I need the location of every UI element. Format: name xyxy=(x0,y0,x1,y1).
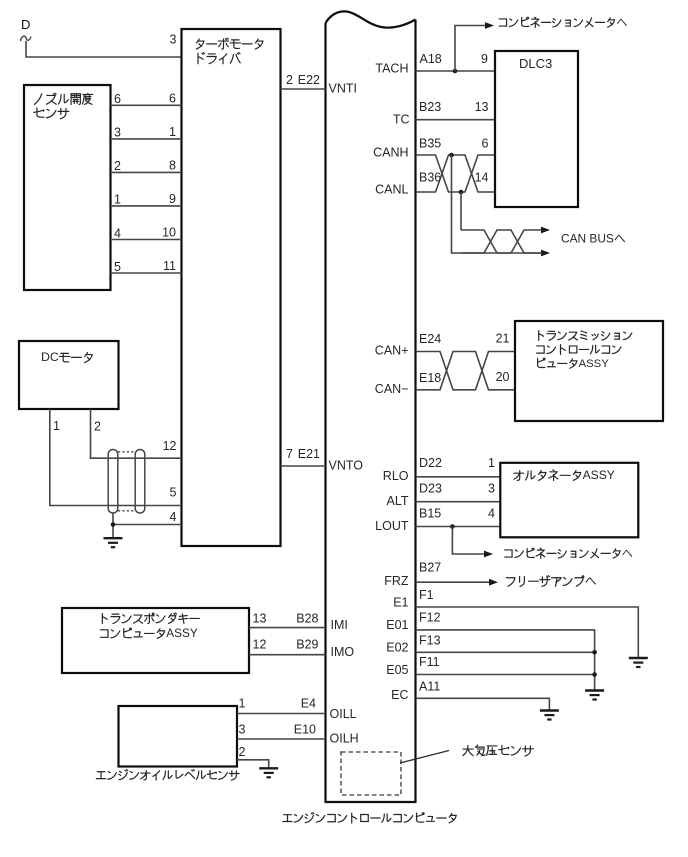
svg-text:VNTI: VNTI xyxy=(329,82,357,96)
svg-text:5: 5 xyxy=(170,485,177,499)
svg-text:21: 21 xyxy=(496,332,510,346)
svg-text:1: 1 xyxy=(169,125,176,139)
svg-text:11: 11 xyxy=(163,259,176,273)
svg-text:E02: E02 xyxy=(386,641,408,655)
svg-text:へ: へ xyxy=(585,574,597,588)
svg-text:ASSY: ASSY xyxy=(579,358,610,370)
svg-text:CANH: CANH xyxy=(373,146,408,160)
svg-text:4: 4 xyxy=(170,510,177,524)
svg-text:CANL: CANL xyxy=(375,183,408,197)
svg-text:E1: E1 xyxy=(393,595,408,609)
svg-text:EC: EC xyxy=(391,688,408,702)
svg-text:2: 2 xyxy=(94,420,101,434)
svg-text:DLC3: DLC3 xyxy=(519,56,552,71)
svg-text:3: 3 xyxy=(488,482,495,496)
svg-text:FRZ: FRZ xyxy=(384,574,409,588)
svg-text:4: 4 xyxy=(114,226,121,240)
svg-text:TACH: TACH xyxy=(375,62,408,76)
svg-text:3: 3 xyxy=(170,33,177,47)
svg-text:D: D xyxy=(21,17,30,32)
svg-text:CAN−: CAN− xyxy=(375,382,409,396)
svg-text:CAN+: CAN+ xyxy=(375,344,409,358)
svg-text:14: 14 xyxy=(475,171,489,185)
svg-text:E22: E22 xyxy=(298,73,320,87)
svg-text:A11: A11 xyxy=(419,680,440,694)
svg-text:A18: A18 xyxy=(420,52,442,66)
svg-text:2: 2 xyxy=(239,745,246,759)
svg-text:12: 12 xyxy=(253,638,267,652)
svg-text:ALT: ALT xyxy=(387,494,409,508)
svg-text:2: 2 xyxy=(286,73,293,87)
svg-text:OILL: OILL xyxy=(330,707,357,721)
svg-text:6: 6 xyxy=(114,92,121,106)
svg-text:E18: E18 xyxy=(419,371,441,385)
svg-text:6: 6 xyxy=(482,137,489,151)
svg-text:3: 3 xyxy=(114,126,121,140)
svg-text:B23: B23 xyxy=(419,100,441,114)
svg-text:2: 2 xyxy=(114,159,121,173)
svg-text:D22: D22 xyxy=(419,456,442,470)
svg-text:E05: E05 xyxy=(386,663,408,677)
svg-text:4: 4 xyxy=(488,507,495,521)
svg-text:E10: E10 xyxy=(294,723,316,737)
svg-text:B15: B15 xyxy=(419,507,441,521)
svg-text:3: 3 xyxy=(239,723,246,737)
svg-text:LOUT: LOUT xyxy=(375,519,409,533)
svg-text:F1: F1 xyxy=(419,588,434,602)
svg-text:IMI: IMI xyxy=(331,618,348,632)
svg-text:13: 13 xyxy=(475,100,489,114)
svg-text:9: 9 xyxy=(169,192,176,206)
svg-text:へ: へ xyxy=(616,17,627,29)
svg-text:B36: B36 xyxy=(419,171,441,185)
svg-text:F12: F12 xyxy=(419,611,441,625)
svg-text:RLO: RLO xyxy=(383,469,409,483)
svg-text:1: 1 xyxy=(488,456,495,470)
svg-text:10: 10 xyxy=(162,226,176,240)
svg-text:E01: E01 xyxy=(386,618,408,632)
svg-text:F13: F13 xyxy=(419,634,441,648)
svg-text:E4: E4 xyxy=(301,697,316,711)
svg-text:B28: B28 xyxy=(296,612,318,626)
svg-text:1: 1 xyxy=(239,697,246,711)
svg-text:CAN BUSへ: CAN BUSへ xyxy=(561,231,626,245)
svg-text:7: 7 xyxy=(286,447,293,461)
svg-text:D23: D23 xyxy=(419,482,442,496)
svg-text:12: 12 xyxy=(163,439,177,453)
svg-text:1: 1 xyxy=(114,193,121,207)
svg-text:DC: DC xyxy=(41,350,59,364)
svg-text:B27: B27 xyxy=(419,561,441,575)
svg-text:E21: E21 xyxy=(298,447,320,461)
svg-text:F11: F11 xyxy=(419,655,440,669)
svg-text:5: 5 xyxy=(114,260,121,274)
svg-text:20: 20 xyxy=(496,370,510,384)
svg-text:B29: B29 xyxy=(296,638,318,652)
svg-text:ASSY: ASSY xyxy=(583,468,615,482)
svg-text:9: 9 xyxy=(481,52,488,66)
svg-text:13: 13 xyxy=(253,612,267,626)
svg-text:1: 1 xyxy=(53,419,60,433)
svg-text:ASSY: ASSY xyxy=(166,626,198,640)
svg-text:6: 6 xyxy=(169,92,176,106)
svg-text:TC: TC xyxy=(393,113,410,127)
svg-text:E24: E24 xyxy=(419,332,441,346)
svg-text:OILH: OILH xyxy=(330,732,359,746)
svg-text:へ: へ xyxy=(622,548,633,560)
svg-text:IMO: IMO xyxy=(331,645,355,659)
svg-text:8: 8 xyxy=(169,159,176,173)
svg-text:B35: B35 xyxy=(419,137,441,151)
svg-text:VNTO: VNTO xyxy=(329,459,364,473)
